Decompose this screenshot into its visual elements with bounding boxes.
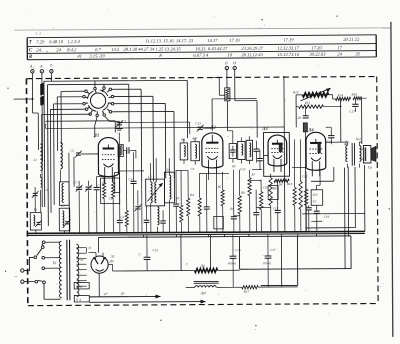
svg-text:L2: L2: [33, 207, 38, 211]
svg-text:R3: R3: [175, 196, 180, 200]
svg-text:R4: R4: [189, 193, 194, 197]
svg-text:C18: C18: [327, 140, 333, 144]
svg-text:L5: L5: [165, 168, 170, 172]
svg-text:L3: L3: [60, 203, 65, 207]
svg-text:Гр: Гр: [367, 165, 372, 169]
svg-text:R15: R15: [312, 193, 318, 197]
svg-text:12.32.33.17: 12.32.33.17: [277, 45, 300, 50]
svg-text:R6: R6: [240, 191, 245, 195]
svg-text:3.15.-39: 3.15.-39: [89, 53, 105, 58]
svg-text:1. 2: 1. 2: [35, 30, 41, 35]
svg-text:С15: С15: [152, 248, 158, 252]
svg-text:8.4.2: 8.4.2: [67, 47, 77, 52]
svg-text:Л5: Л5: [108, 260, 114, 264]
svg-text:11.12.13. 15.16. 14.17. 23: 11.12.13. 15.16. 14.17. 23: [145, 38, 194, 43]
svg-text:а1: а1: [81, 258, 85, 262]
svg-text:R8: R8: [272, 187, 277, 191]
svg-text:17: 17: [337, 45, 342, 50]
svg-text:С19: С19: [324, 215, 330, 219]
svg-text:23.26.29.27: 23.26.29.27: [241, 46, 264, 51]
svg-text:Др: Др: [200, 264, 205, 268]
svg-text:R7: R7: [251, 173, 256, 177]
svg-text:С4: С4: [120, 215, 124, 219]
svg-text:И: И: [232, 61, 236, 65]
svg-text:14.17: 14.17: [207, 38, 218, 43]
svg-text:17 19: 17 19: [229, 38, 240, 43]
svg-text:R17: R17: [243, 290, 250, 294]
svg-text:24: 24: [337, 51, 342, 56]
svg-text:R12: R12: [292, 90, 299, 94]
svg-text:16.31. 6.43.44.17: 16.31. 6.43.44.17: [195, 46, 228, 51]
svg-text:С3: С3: [44, 188, 48, 192]
svg-text:б*: б*: [121, 292, 125, 296]
svg-text:Е 4: Е 4: [75, 298, 81, 302]
svg-text:а*: а*: [104, 292, 108, 296]
svg-text:28.1.30 44.27 34 1.25 13 24.15: 28.1.30 44.27 34 1.25 13 24.15: [123, 46, 181, 51]
svg-text:17.19: 17.19: [283, 37, 294, 42]
svg-text:С17: С17: [349, 110, 355, 114]
svg-text:~: ~: [14, 274, 17, 280]
svg-text:6 7: 6 7: [95, 47, 101, 52]
svg-text:24: 24: [56, 47, 61, 52]
svg-text:Е14: Е14: [75, 285, 82, 289]
svg-text:17.20.: 17.20.: [311, 45, 323, 50]
svg-text:Rу: Rу: [278, 182, 283, 186]
svg-text:С12: С12: [302, 174, 308, 178]
svg-text:35: 35: [355, 51, 360, 56]
svg-text:13.5: 13.5: [111, 47, 120, 52]
svg-text:R13: R13: [304, 101, 311, 105]
svg-text:Ф3: Ф3: [192, 137, 197, 141]
svg-text:С7: С7: [73, 181, 77, 185]
svg-text:C16: C16: [235, 248, 241, 252]
svg-text:C13: C13: [195, 121, 201, 125]
svg-text:С5: С5: [70, 149, 74, 153]
svg-text:Л4: Л4: [307, 127, 314, 132]
svg-text:Тр2: Тр2: [356, 137, 361, 141]
svg-text:Тр: Тр: [53, 261, 57, 265]
svg-text:в1: в1: [88, 246, 91, 250]
svg-text:15.13.73.16: 15.13.73.16: [277, 52, 300, 57]
svg-text:C17: C17: [270, 248, 276, 252]
svg-text:7.29: 7.29: [36, 39, 45, 44]
svg-text:[40мк]: [40мк]: [228, 261, 238, 265]
svg-text:Тр: Тр: [345, 140, 349, 144]
svg-text:26.11.12.43: 26.11.12.43: [241, 52, 263, 57]
svg-text:R14: R14: [337, 93, 344, 97]
svg-text:Др1: Др1: [200, 291, 207, 295]
svg-text:Л5: Л5: [110, 255, 115, 259]
svg-text:C1: C1: [122, 119, 126, 123]
svg-text:R5: R5: [217, 185, 222, 189]
svg-text:30.22.63: 30.22.63: [309, 52, 326, 57]
svg-text:6.67 3 4: 6.67 3 4: [193, 53, 209, 58]
svg-text:24.: 24.: [36, 48, 42, 53]
svg-text:С9: С9: [190, 167, 194, 171]
svg-text:R16: R16: [351, 93, 358, 97]
svg-text:Ф2: Ф2: [181, 138, 186, 142]
svg-text:С11: С11: [273, 207, 279, 211]
svg-text:Л1: Л1: [93, 133, 99, 138]
svg-text:L4: L4: [147, 175, 152, 179]
svg-text:С10: С10: [263, 186, 269, 190]
svg-text:6.48 10: 6.48 10: [49, 39, 64, 44]
svg-text:L1: L1: [32, 158, 37, 162]
svg-text:A: A: [39, 63, 43, 68]
svg-text:R10: R10: [286, 182, 293, 186]
svg-text:41: 41: [77, 54, 82, 59]
svg-text:П: П: [224, 61, 228, 65]
svg-text:С2: С2: [97, 184, 101, 188]
svg-text:С20: С20: [296, 116, 302, 120]
svg-text:С6: С6: [129, 177, 133, 181]
svg-text:10: 10: [227, 52, 232, 57]
svg-text:20 21 22: 20 21 22: [343, 37, 360, 42]
svg-text:С13: С13: [240, 167, 246, 171]
svg-text:[20мк]: [20мк]: [263, 261, 273, 265]
svg-text:R6: R6: [229, 207, 234, 211]
svg-text:1.2.3.4: 1.2.3.4: [67, 39, 80, 44]
